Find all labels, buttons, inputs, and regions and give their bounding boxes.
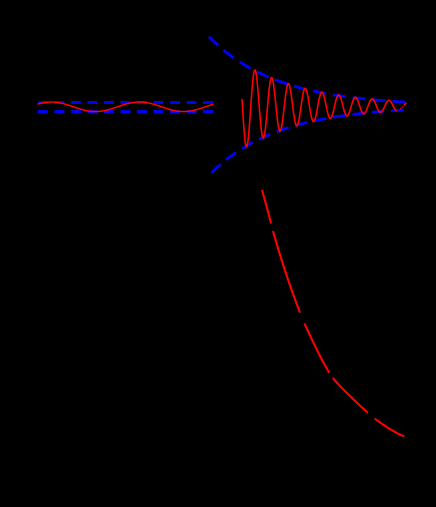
red oscillation trailing dashes (401, 103, 407, 109)
red decaying oscillation (242, 70, 397, 147)
top envelope curve (blue dashed, decaying) (209, 37, 405, 102)
left bottom envelope line (blue dashed) (38, 110, 213, 113)
red dashed decaying-mode curve (262, 190, 404, 436)
left top envelope line (blue dashed) (38, 101, 213, 104)
bottom envelope curve (blue dashed, decaying) (212, 110, 404, 173)
left small-amplitude red wave (38, 102, 214, 112)
